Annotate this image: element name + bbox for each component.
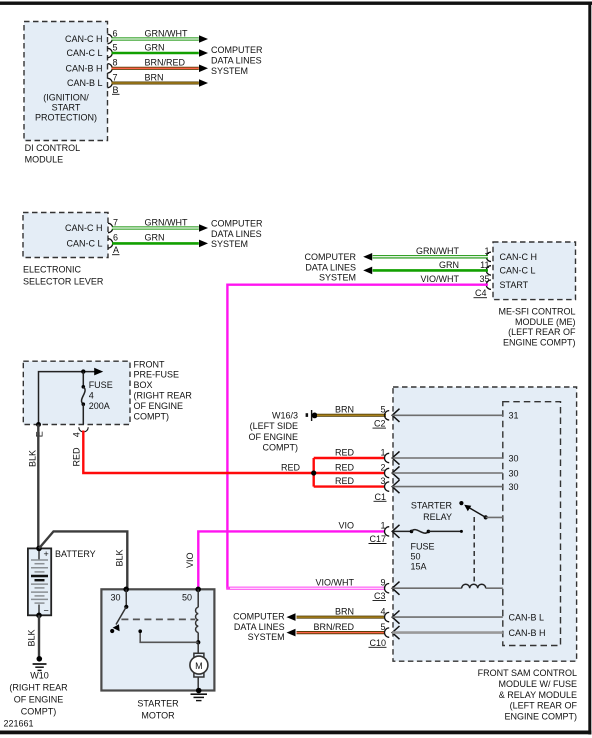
svg-text:W10: W10 xyxy=(30,671,49,681)
svg-text:STARTER: STARTER xyxy=(137,698,179,708)
svg-text:30: 30 xyxy=(509,453,519,463)
arrow to computer data lines xyxy=(363,253,372,261)
svg-text:ELECTRONIC: ELECTRONIC xyxy=(23,264,82,274)
wire VIO/WHT start pin 35 xyxy=(486,280,491,289)
svg-text:ENGINE COMPT): ENGINE COMPT) xyxy=(503,338,576,348)
svg-text:11: 11 xyxy=(480,260,489,270)
junction battery top xyxy=(36,546,42,552)
wire internal from E xyxy=(39,372,96,425)
SAM inner module box xyxy=(503,402,561,646)
svg-text:GRN: GRN xyxy=(439,260,459,270)
svg-text:SYSTEM: SYSTEM xyxy=(211,66,248,76)
svg-text:C17: C17 xyxy=(369,534,386,544)
svg-text:CAN-C L: CAN-C L xyxy=(66,48,102,58)
svg-text:CAN-C H: CAN-C H xyxy=(65,34,103,44)
svg-text:START: START xyxy=(52,102,81,112)
svg-text:−: − xyxy=(44,606,49,616)
svg-text:7: 7 xyxy=(113,217,118,227)
svg-text:DATA LINES: DATA LINES xyxy=(211,229,262,239)
SAM row pin 5 / terminal 31 xyxy=(385,411,390,420)
svg-text:B: B xyxy=(113,85,119,95)
junction E pin xyxy=(36,422,41,427)
wire RED from fuse 4 xyxy=(83,431,313,474)
svg-text:RED: RED xyxy=(281,462,301,472)
junction red feed xyxy=(311,470,316,475)
svg-text:GRN/WHT: GRN/WHT xyxy=(145,28,188,38)
svg-text:FUSE: FUSE xyxy=(411,541,435,551)
svg-text:MODULE W/ FUSE: MODULE W/ FUSE xyxy=(498,679,577,689)
svg-text:STARTER: STARTER xyxy=(411,501,453,511)
wire BRN/RED pin 5 xyxy=(297,631,385,634)
svg-text:BRN/RED: BRN/RED xyxy=(145,58,186,68)
svg-text:RELAY: RELAY xyxy=(423,512,452,522)
battery xyxy=(28,548,51,615)
battery plates xyxy=(31,559,48,561)
svg-text:SYSTEM: SYSTEM xyxy=(248,632,285,642)
svg-text:OF ENGINE: OF ENGINE xyxy=(248,432,298,442)
fuse 50 15A xyxy=(410,530,414,534)
svg-text:COMPT): COMPT) xyxy=(134,411,170,421)
wire VIO/WHT vertical run xyxy=(226,284,228,589)
starter relay blade xyxy=(469,508,486,518)
wire GRN pin 6 xyxy=(108,239,113,248)
svg-text:C4: C4 xyxy=(475,288,487,298)
arrow to computer data lines xyxy=(199,35,208,43)
junction battery bottom xyxy=(36,613,42,619)
connector arc pin 4 xyxy=(79,427,88,432)
svg-text:221661: 221661 xyxy=(4,719,34,729)
arrow to computer data lines xyxy=(199,79,208,87)
svg-text:PRE-FUSE: PRE-FUSE xyxy=(134,370,180,380)
SAM row pin 4 CAN-B L xyxy=(385,612,390,621)
svg-text:5: 5 xyxy=(113,42,118,52)
electronic selector lever box xyxy=(23,213,108,258)
svg-text:30: 30 xyxy=(509,468,519,478)
svg-text:GRN: GRN xyxy=(145,42,165,52)
front SAM control module box xyxy=(393,387,577,661)
svg-text:FRONT: FRONT xyxy=(134,359,165,369)
svg-text:COMPT): COMPT) xyxy=(21,707,57,717)
svg-text:7: 7 xyxy=(113,72,118,82)
wire BLK battery to starter 30 xyxy=(39,531,127,589)
svg-text:+: + xyxy=(44,549,49,559)
relay actuation dashed link xyxy=(473,517,475,582)
wire RED pin 3 xyxy=(314,485,385,487)
wire BLK battery to ground xyxy=(38,615,40,659)
svg-text:START: START xyxy=(500,280,529,290)
svg-text:C2: C2 xyxy=(374,419,386,429)
wire BRN pin 4 xyxy=(297,616,385,619)
SAM row pin 3 / terminal 30 xyxy=(385,482,390,491)
svg-text:COMPUTER: COMPUTER xyxy=(305,252,357,262)
svg-text:MODULE (ME): MODULE (ME) xyxy=(515,317,576,327)
svg-text:C1: C1 xyxy=(374,492,386,502)
svg-text:VIO: VIO xyxy=(185,552,195,568)
svg-text:OF ENGINE: OF ENGINE xyxy=(134,401,184,411)
arrow to computer data lines xyxy=(199,224,208,232)
svg-text:4: 4 xyxy=(89,390,94,400)
svg-text:4: 4 xyxy=(72,432,82,437)
svg-text:W16/3: W16/3 xyxy=(272,411,298,421)
wire VIO/WHT to SAM pin 9 xyxy=(226,587,384,590)
wire BLK from E to battery xyxy=(37,425,39,549)
wire RED pin 1 xyxy=(314,457,385,459)
svg-text:31: 31 xyxy=(509,411,519,421)
svg-text:(RIGHT REAR: (RIGHT REAR xyxy=(9,683,68,693)
SAM row pin 2 / terminal 30 xyxy=(385,468,390,477)
svg-text:50: 50 xyxy=(411,552,421,562)
svg-text:RED: RED xyxy=(335,462,355,472)
svg-text:BLK: BLK xyxy=(115,549,125,566)
svg-text:RED: RED xyxy=(335,447,355,457)
plunger link xyxy=(140,632,198,643)
svg-text:FRONT SAM CONTROL: FRONT SAM CONTROL xyxy=(478,668,577,678)
page border right xyxy=(588,2,591,735)
svg-text:BRN: BRN xyxy=(145,72,164,82)
svg-text:VIO/WHT: VIO/WHT xyxy=(316,578,355,588)
junction coil to motor xyxy=(196,640,200,644)
SAM row pin 5 CAN-B H xyxy=(385,628,390,637)
svg-text:COMPT): COMPT) xyxy=(263,443,299,453)
svg-text:CAN-B H: CAN-B H xyxy=(509,628,546,638)
arrow to computer data lines xyxy=(363,267,372,275)
svg-text:CAN-C H: CAN-C H xyxy=(500,252,538,262)
svg-text:6: 6 xyxy=(113,28,118,38)
wire GRN pin 5 xyxy=(108,48,113,57)
svg-text:COMPUTER: COMPUTER xyxy=(233,612,285,622)
svg-text:200A: 200A xyxy=(89,401,110,411)
wire GRN/WHT pin 1 xyxy=(486,252,491,261)
svg-text:1: 1 xyxy=(484,246,489,256)
svg-text:& RELAY MODULE: & RELAY MODULE xyxy=(499,690,577,700)
starter motor box xyxy=(101,589,214,690)
svg-text:SYSTEM: SYSTEM xyxy=(211,239,248,249)
svg-text:PROTECTION): PROTECTION) xyxy=(35,113,97,123)
svg-text:BOX: BOX xyxy=(134,380,153,390)
svg-text:GRN: GRN xyxy=(145,233,165,243)
wire BRN/RED pin 8 xyxy=(108,64,113,73)
arrow to computer data lines xyxy=(199,49,208,57)
relay coil xyxy=(462,584,486,588)
svg-text:BRN: BRN xyxy=(335,606,354,616)
wire BRN pin 7 xyxy=(108,78,113,87)
svg-text:VIO: VIO xyxy=(338,521,354,531)
page border top xyxy=(0,2,592,5)
svg-text:CAN-C L: CAN-C L xyxy=(500,266,536,276)
svg-text:DATA LINES: DATA LINES xyxy=(211,56,262,66)
svg-text:6: 6 xyxy=(113,233,118,243)
svg-text:BATTERY: BATTERY xyxy=(55,549,96,559)
svg-text:BRN/RED: BRN/RED xyxy=(313,622,354,632)
switch linkage dashed xyxy=(121,618,195,620)
svg-text:BLK: BLK xyxy=(27,629,37,646)
SAM row pin 9 with relay coil xyxy=(385,584,390,593)
svg-text:(RIGHT REAR: (RIGHT REAR xyxy=(134,391,193,401)
svg-text:RED: RED xyxy=(72,447,82,467)
arrow to computer data lines xyxy=(287,613,296,621)
battery - terminal xyxy=(38,605,40,616)
starter switch xyxy=(125,589,127,607)
wire BRN to SAM pin 5 xyxy=(317,414,386,417)
svg-text:COMPUTER: COMPUTER xyxy=(211,219,263,229)
svg-text:BRN: BRN xyxy=(335,405,354,415)
svg-text:CAN-B L: CAN-B L xyxy=(67,78,103,88)
svg-text:ENGINE COMPT): ENGINE COMPT) xyxy=(504,712,577,722)
svg-text:30: 30 xyxy=(509,482,519,492)
svg-text:35: 35 xyxy=(479,274,489,284)
svg-text:M: M xyxy=(195,661,203,671)
fuse F4 200A xyxy=(82,372,84,386)
svg-text:CAN-B H: CAN-B H xyxy=(65,64,102,74)
ME-SFI control module box xyxy=(493,242,576,300)
svg-text:COMPUTER: COMPUTER xyxy=(211,45,263,55)
svg-text:CAN-C L: CAN-C L xyxy=(66,239,102,249)
svg-text:C3: C3 xyxy=(374,591,386,601)
page border bottom xyxy=(0,731,591,735)
ground starter motor xyxy=(196,688,202,694)
svg-text:A: A xyxy=(113,245,119,255)
svg-text:E: E xyxy=(35,431,45,437)
svg-text:8: 8 xyxy=(113,58,118,68)
svg-text:SYSTEM: SYSTEM xyxy=(319,273,356,283)
wire RED pin 2 xyxy=(314,472,385,474)
svg-text:GRN/WHT: GRN/WHT xyxy=(145,217,188,227)
svg-text:50: 50 xyxy=(182,592,192,602)
svg-text:BLK: BLK xyxy=(28,450,38,467)
arrow to computer data lines xyxy=(199,240,208,248)
wire GRN/WHT pin 6 xyxy=(108,34,113,43)
svg-text:MODULE: MODULE xyxy=(25,154,64,164)
motor M xyxy=(197,642,199,653)
svg-text:CAN-C H: CAN-C H xyxy=(65,223,103,233)
svg-text:DATA LINES: DATA LINES xyxy=(234,622,285,632)
svg-text:ME-SFI CONTROL: ME-SFI CONTROL xyxy=(498,307,575,317)
svg-text:(IGNITION/: (IGNITION/ xyxy=(43,93,89,103)
svg-text:DI CONTROL: DI CONTROL xyxy=(25,143,81,153)
svg-text:15A: 15A xyxy=(411,562,427,572)
svg-text:DATA LINES: DATA LINES xyxy=(305,262,356,272)
SAM row pin 1 / terminal 30 xyxy=(385,453,390,462)
svg-text:GRN/WHT: GRN/WHT xyxy=(416,246,459,256)
ground W10 xyxy=(37,656,43,662)
svg-text:MOTOR: MOTOR xyxy=(141,710,175,720)
svg-text:VIO/WHT: VIO/WHT xyxy=(421,274,460,284)
wire GRN pin 11 xyxy=(486,266,491,275)
svg-text:FUSE: FUSE xyxy=(89,380,113,390)
svg-text:(LEFT SIDE: (LEFT SIDE xyxy=(250,421,298,431)
ground W16/3 xyxy=(306,413,309,417)
svg-text:C10: C10 xyxy=(369,638,386,648)
wire VIO from SAM pin 1 C17 xyxy=(198,531,384,588)
svg-text:(LEFT REAR OF: (LEFT REAR OF xyxy=(510,701,578,711)
svg-text:(LEFT REAR OF: (LEFT REAR OF xyxy=(508,327,576,337)
DI control module box xyxy=(24,22,108,141)
svg-text:30: 30 xyxy=(111,592,121,602)
svg-text:OF ENGINE: OF ENGINE xyxy=(14,695,64,705)
starter relay contacts xyxy=(459,501,463,505)
wire RED bus vertical xyxy=(313,458,315,487)
wire relay to bus xyxy=(486,516,503,518)
svg-text:SELECTOR LEVER: SELECTOR LEVER xyxy=(23,277,104,287)
svg-text:RED: RED xyxy=(335,476,355,486)
arrow to computer data lines xyxy=(287,629,296,637)
junction xyxy=(81,369,85,373)
solenoid coil xyxy=(197,589,199,607)
svg-text:CAN-B L: CAN-B L xyxy=(509,612,545,622)
arrow internal feed xyxy=(94,368,103,376)
arrow to computer data lines xyxy=(199,65,208,73)
front pre-fuse box xyxy=(23,361,130,424)
wire GRN/WHT pin 7 xyxy=(108,223,113,232)
SAM row pin 1 C17 fuse 50 xyxy=(385,527,390,536)
